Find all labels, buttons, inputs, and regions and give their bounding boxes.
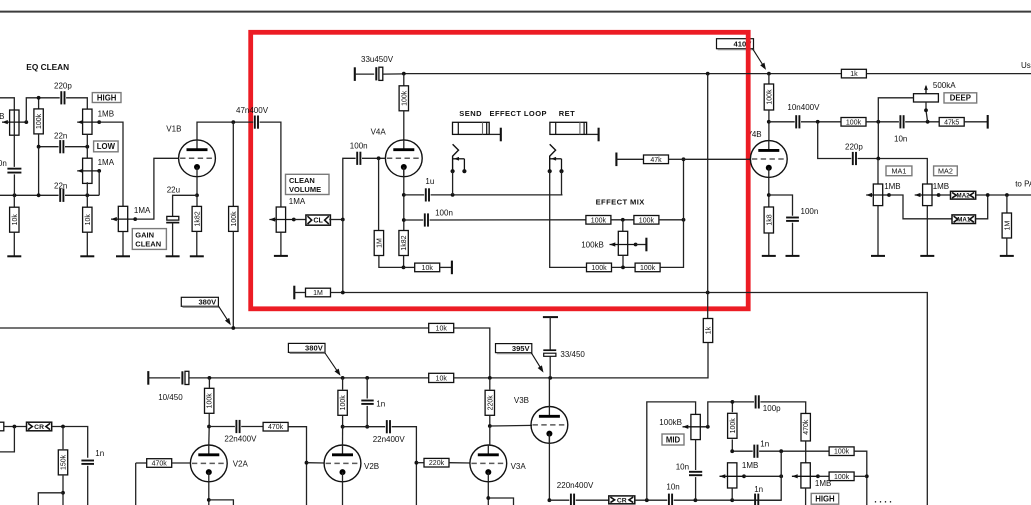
resistor 1k82 V1B cathode [196, 195, 198, 206]
svg-text:1MB: 1MB [742, 461, 758, 470]
svg-text:1n: 1n [760, 440, 769, 449]
svg-text:1M: 1M [1004, 220, 1011, 230]
svg-text:100k: 100k [834, 474, 850, 481]
wire mix top middle [611, 219, 634, 221]
potentiometer LOW 1MA [83, 158, 92, 183]
resistor 10k EQ mid [86, 195, 88, 208]
svg-text:MA2: MA2 [957, 192, 971, 199]
switch SEND jack contacts [453, 144, 459, 171]
wire V2A grid feed riser down [135, 463, 137, 505]
wire output row to PA [976, 194, 1031, 196]
resistor 100k V4B anode load [768, 74, 770, 84]
resistor 47k return terminal [615, 153, 617, 167]
capacitor 10n presence [899, 115, 901, 128]
ground under 100n [792, 223, 794, 256]
capacitor 22n400V V2A [235, 420, 237, 433]
capacitor 1n lower tone [754, 494, 756, 505]
svg-text:380V: 380V [305, 344, 324, 353]
node 410V label (partially behind red box) [717, 39, 754, 49]
svg-text:10k: 10k [85, 214, 92, 226]
resistor 470k tone [801, 413, 810, 441]
svg-text:100k: 100k [834, 449, 850, 456]
svg-text:HIGH: HIGH [97, 93, 117, 102]
svg-text:10k: 10k [436, 375, 448, 382]
ground under gain pot [122, 232, 124, 257]
wire V2B anode row [343, 426, 386, 428]
svg-text:1MA: 1MA [134, 206, 151, 215]
svg-text:22n: 22n [54, 131, 67, 140]
svg-text:CLEAN: CLEAN [135, 239, 161, 248]
svg-text:22n400V: 22n400V [373, 435, 406, 444]
resistor 100k mix top-left [586, 216, 611, 225]
tube V4A [385, 140, 422, 177]
wire HIGH wiper to gain-pot riser [99, 122, 123, 206]
wire V2A grid from 470k [136, 462, 147, 464]
svg-text:100n: 100n [801, 207, 819, 216]
svg-text:220p: 220p [845, 143, 863, 152]
wire high pot bottom down [805, 488, 807, 505]
svg-text:1k82: 1k82 [401, 235, 408, 250]
wire 100p to 470k riser [760, 402, 805, 414]
resistor 100k tone upper [829, 447, 854, 456]
resistor 1k below red box [707, 293, 709, 319]
wire V2A cathode elbow [208, 482, 210, 505]
capacitor 33/450 with top terminal [543, 316, 558, 318]
svg-text:100k: 100k [36, 113, 43, 129]
wire mix bottom right riser [660, 159, 683, 267]
svg-text:100k: 100k [640, 265, 656, 272]
svg-text:MA1: MA1 [892, 166, 907, 175]
tube V3A [470, 445, 507, 482]
potentiometer 1MB bass [728, 463, 737, 488]
svg-text:220k: 220k [429, 460, 445, 467]
wire LOW pot bottom [86, 182, 88, 195]
svg-text:100p: 100p [763, 404, 781, 413]
arrow 395V to rail node [531, 353, 542, 370]
svg-text:33u450V: 33u450V [361, 55, 394, 64]
resistor 100k V4A anode load [403, 74, 405, 86]
resistor 100k mix bottom-right [635, 263, 660, 272]
svg-text:100k: 100k [730, 418, 737, 434]
svg-text:CR: CR [617, 497, 627, 504]
svg-text:V4A: V4A [371, 127, 387, 136]
resistor 100k tone stack [731, 402, 733, 412]
svg-text:V1B: V1B [166, 125, 181, 134]
capacitor 100p [732, 401, 754, 403]
wire slope pot wiper riser to EQ top rail [26, 98, 59, 122]
wire bass wiper row to riser [744, 475, 781, 477]
wire HIGH pot bottom to LOW pot top [86, 134, 88, 158]
wire pot body vertical through [13, 110, 15, 135]
ground under clean volume pot [280, 232, 282, 256]
resistor 10k rail upper [429, 323, 454, 332]
capacitor 1n upper tone [753, 445, 755, 458]
svg-text:100k: 100k [591, 217, 607, 224]
svg-text:220p: 220p [54, 82, 72, 91]
resistor 220k V3A anode load [489, 378, 491, 390]
resistor 100k V1B anode load [232, 122, 234, 206]
svg-text:1k: 1k [706, 326, 713, 334]
svg-text:100k: 100k [846, 119, 862, 126]
capacitor 10/450 electrolytic [181, 371, 183, 384]
svg-text:1MB: 1MB [933, 182, 949, 191]
wire 1k down to second rail corner [550, 343, 708, 378]
red highlight box around effects loop section [251, 32, 749, 309]
capacitor 10n400V [795, 115, 797, 128]
label 380V left [181, 297, 218, 306]
ground under 10k left [13, 232, 15, 256]
resistor 100k EQ [38, 98, 40, 110]
svg-text:V2B: V2B [364, 462, 379, 471]
potentiometer left (edge, partially cut) [10, 110, 19, 135]
svg-text:MA2: MA2 [938, 166, 953, 175]
label HIGH bottom [811, 493, 839, 504]
wire RET left contact down to mix bottom row [550, 171, 587, 267]
wire V3B cathode down [548, 434, 550, 501]
wire left edge node [4, 426, 27, 428]
svg-text:220n400V: 220n400V [557, 481, 594, 490]
wire 1k82 bottom to 10k row [403, 256, 405, 268]
tube V1B [179, 140, 216, 177]
svg-text:47k: 47k [650, 157, 662, 164]
wire 22n row2 left from edge [0, 194, 59, 196]
wire V3B anode to rail [548, 378, 550, 407]
capacitor 22n400V V2B [386, 420, 388, 433]
svg-text:1MB: 1MB [884, 182, 900, 191]
svg-text:1n: 1n [95, 449, 104, 458]
label 395V [496, 344, 532, 353]
svg-text:1MA: 1MA [289, 197, 306, 206]
top border line [0, 11, 1031, 13]
connector MA2 [951, 191, 976, 199]
svg-text:220k: 220k [487, 395, 494, 411]
wire V3A anode to V3B grid [488, 424, 492, 428]
wire 1n row upper [732, 450, 753, 452]
svg-text:CLEAN: CLEAN [289, 176, 315, 185]
svg-text:1k8: 1k8 [766, 214, 773, 225]
wire RET right contact down to 1u wire [561, 171, 563, 195]
wire riser 100k bottom to 22n row2 [38, 147, 40, 196]
capacitor 100n left edge (clipped) [13, 135, 15, 167]
wire MA1 wiper to MA1 connector [889, 195, 952, 219]
wire V4B cathode [768, 177, 770, 207]
resistor 1M output load [1006, 195, 1008, 213]
svg-text:22u: 22u [167, 185, 180, 194]
ground under 1k82 [196, 232, 198, 257]
arrow 410V pointing to supply node [753, 49, 765, 68]
svg-text:395V: 395V [512, 344, 531, 353]
svg-text:LOW: LOW [97, 142, 116, 151]
svg-text:500kA: 500kA [933, 81, 956, 90]
potentiometer MA2 1MB [923, 184, 932, 206]
wire 100k to right riser [854, 451, 867, 505]
capacitor 10n lower [668, 494, 670, 505]
switch RET jack contacts [550, 144, 556, 171]
potentiometer 1MB HIGH [801, 463, 810, 488]
svg-text:V2A: V2A [233, 459, 249, 468]
ground under 10k mid [86, 232, 88, 256]
wire MA2 wiper to MA2 connector [939, 194, 951, 196]
svg-text:SEND: SEND [459, 109, 482, 118]
wire left node down-left elbow [0, 427, 14, 452]
arrow 380V to rail node [218, 306, 229, 322]
connector CR upper [27, 422, 52, 431]
wire CR node riser to mid pot line [647, 402, 696, 500]
wire 47n to clean volume pot riser [260, 122, 281, 207]
wire DEEP pot left lead [878, 98, 913, 159]
wire CL to grid riser [329, 219, 343, 221]
wire V2A anode row [208, 427, 210, 446]
ground under 1k8 [768, 233, 770, 256]
capacitor 100n effect mix lower [404, 219, 423, 221]
label DEEP [944, 93, 977, 103]
wire left edge resistor (clipped) [0, 422, 4, 431]
ground under MA1 pot [877, 206, 879, 256]
svg-text:1MA: 1MA [98, 158, 115, 167]
wire send switch to 1u node [452, 171, 454, 195]
resistor 100k high wiper [818, 475, 829, 477]
svg-text:10/450: 10/450 [158, 393, 183, 402]
ground under 1M [1006, 238, 1008, 256]
svg-text:100k: 100k [401, 90, 408, 106]
svg-text:1MB: 1MB [98, 109, 114, 118]
resistor 47k5 [939, 118, 964, 127]
capacitor 1n V2B [366, 378, 368, 399]
wire gain wiper to V1B grid [135, 158, 179, 219]
wire DEEP pot bottom to 47k5 row [926, 102, 928, 122]
svg-text:EQ CLEAN: EQ CLEAN [26, 62, 69, 72]
label GAIN CLEAN [132, 229, 166, 250]
capacitor 1n left [81, 460, 94, 462]
svg-text:V3B: V3B [514, 396, 529, 405]
label MA1 [886, 166, 912, 176]
svg-text:MID: MID [666, 435, 681, 444]
resistor 150k [62, 427, 64, 450]
svg-text:. . . .: . . . . [874, 495, 892, 505]
wire vertical top node through red box to 1k [707, 74, 709, 293]
capacitor 1u send [404, 194, 424, 196]
wire mix pot bottom to bottom row [622, 255, 624, 267]
capacitor 22u electrolytic [173, 195, 197, 216]
wire 470k down to HIGH pot (crossing 1n row) [805, 441, 807, 463]
connector MA1 [952, 215, 976, 224]
svg-text:100kB: 100kB [659, 418, 682, 427]
wire V4B anode row [769, 121, 795, 123]
resistor 220k V3A grid [416, 462, 424, 464]
wire MA1 pot riser [877, 159, 879, 185]
svg-text:1u: 1u [425, 177, 434, 186]
svg-text:10n: 10n [894, 134, 907, 143]
wire 33u to anode node V4A [383, 73, 404, 75]
label HIGH [92, 93, 121, 103]
resistor 1k8 V4B cathode [764, 207, 773, 233]
wire rail upper corner down to rail2 [454, 328, 490, 378]
svg-text:10k: 10k [436, 326, 448, 333]
svg-text:CL: CL [313, 216, 323, 225]
wire mix pot wiper to terminal [636, 244, 647, 246]
wire riser CL node down to 1M mix wire [342, 220, 344, 293]
svg-text:10n: 10n [666, 483, 679, 492]
svg-text:HIGH: HIGH [815, 495, 835, 504]
connector CL [294, 219, 307, 221]
potentiometer CLEAN VOLUME 1MA [276, 207, 285, 232]
svg-text:1n: 1n [754, 485, 763, 494]
capacitor 220n400V [549, 499, 569, 501]
svg-text:100k: 100k [207, 393, 214, 409]
capacitor 22n upper [59, 140, 61, 153]
wire V4A cathode chain [403, 168, 405, 231]
label MA2 [934, 166, 958, 176]
potentiometer HIGH 1MB [83, 109, 92, 134]
capacitor 33u450V electrolytic [375, 67, 377, 80]
svg-text:100n: 100n [0, 159, 7, 168]
wire from left edge into slope pot top [0, 98, 14, 110]
arrow 380V mid to rail node [325, 353, 339, 373]
svg-text:1MB: 1MB [0, 112, 4, 121]
resistor 100k V2B anode load [342, 378, 344, 390]
wire V3A cathode elbow [487, 482, 489, 505]
resistor 10k cathode to terminal [404, 266, 416, 268]
svg-text:1n: 1n [376, 399, 385, 408]
svg-text:47n400V: 47n400V [236, 106, 269, 115]
wire V2B grid [307, 462, 325, 464]
svg-text:100k: 100k [766, 89, 773, 105]
ground under 22u [172, 223, 174, 257]
wire 150k bottom elbow left-down [38, 493, 63, 505]
svg-text:10k: 10k [12, 214, 19, 226]
svg-text:100kB: 100kB [581, 241, 604, 250]
svg-text:1k: 1k [850, 71, 858, 78]
svg-text:MA1: MA1 [957, 216, 971, 223]
svg-text:100k: 100k [340, 395, 347, 411]
svg-text:100k: 100k [591, 265, 607, 272]
svg-text:10n: 10n [676, 462, 689, 471]
wire 100k down to 380V rail [232, 231, 234, 328]
wire LOW wiper riser down [98, 171, 100, 195]
resistor 1k top right [841, 69, 866, 78]
tube V3B [531, 407, 568, 444]
tube V2A [190, 445, 227, 482]
svg-text:RET: RET [559, 109, 576, 118]
wire 1M bottom to cathode row [379, 256, 404, 268]
svg-text:100n: 100n [435, 209, 453, 218]
svg-text:10n400V: 10n400V [787, 103, 820, 112]
capacitor 220p [60, 91, 62, 104]
resistor 1k82 V4A cathode [399, 231, 408, 256]
resistor 100k V2A anode load [208, 378, 210, 388]
svg-text:1M: 1M [376, 238, 383, 248]
svg-text:Used: Used [1021, 61, 1031, 70]
resistor 470k V2A grid [147, 459, 172, 468]
svg-text:100k: 100k [639, 217, 655, 224]
capacitor 100n V4A grid [356, 152, 358, 165]
svg-text:100k: 100k [231, 211, 238, 227]
svg-text:380V: 380V [198, 298, 217, 307]
capacitor 33u450V input terminal [354, 67, 356, 81]
wire 220p to HIGH pot top [66, 98, 87, 109]
capacitor 22n lower [59, 189, 61, 202]
svg-text:22n400V: 22n400V [224, 435, 257, 444]
connector CR lower [609, 496, 635, 504]
label CLEAN VOLUME [286, 174, 330, 194]
wire V2B cathode down [342, 482, 344, 505]
svg-text:470k: 470k [803, 419, 810, 435]
svg-text:10k: 10k [422, 265, 434, 272]
tube V2B [324, 445, 361, 482]
svg-text:33/450: 33/450 [560, 350, 585, 359]
wire V2B anode node [341, 425, 345, 429]
potentiometer 100kB MID [691, 414, 700, 439]
svg-text:22n: 22n [54, 181, 67, 190]
resistor 1M mix return [306, 288, 331, 297]
resistor 1M grid leak [378, 158, 380, 230]
wire CR to 150k node [52, 427, 88, 458]
wire MID wiper riser to 100k node [708, 402, 733, 427]
wire 1M mix return row [293, 286, 295, 300]
wire V1B anode to top node [197, 122, 253, 140]
resistor 100k treble row [841, 118, 866, 127]
label 380V mid [288, 343, 325, 352]
potentiometer GAIN CLEAN 1MA [118, 206, 127, 231]
potentiometer 100kB effect mix [622, 220, 624, 232]
svg-text:CR: CR [34, 424, 44, 431]
potentiometer MA1 1MB [873, 184, 882, 206]
wire top supply row to right edge [404, 73, 1031, 75]
resistor 10k EQ left [13, 195, 15, 208]
svg-text:GAIN: GAIN [135, 230, 154, 239]
svg-text:470k: 470k [152, 461, 168, 468]
wire V1B cathode [196, 177, 198, 196]
svg-text:1M: 1M [313, 290, 323, 297]
wire bass pot bottom to bottom row [731, 488, 733, 500]
wire MA1 connector to output riser [976, 195, 988, 219]
capacitor 10n under MID pot [695, 440, 697, 470]
svg-text:V3A: V3A [511, 462, 527, 471]
svg-text:1k82: 1k82 [194, 211, 201, 226]
wire riser 1n node down to bottom 1n [760, 451, 781, 500]
wire 47k node to V4B grid [684, 158, 751, 160]
label LOW [94, 141, 119, 152]
svg-text:150k: 150k [61, 454, 68, 470]
resistor 100k mix top-right [634, 216, 659, 225]
svg-text:47k5: 47k5 [944, 119, 959, 126]
svg-text:to PA: to PA [1015, 179, 1031, 188]
capacitor 100n V4B cathode bypass [769, 195, 793, 216]
svg-text:100n: 100n [350, 141, 368, 150]
wire 395V rail lower [147, 371, 149, 385]
svg-text:470k: 470k [268, 424, 284, 431]
capacitor 47n400V [254, 116, 256, 129]
wire 22n row1 [39, 146, 59, 148]
resistor 470k coupling [263, 422, 288, 431]
capacitor 220p V4B [818, 122, 852, 159]
ground under MA2 pot [926, 206, 928, 256]
wire 470k to V2B grid riser [288, 427, 306, 505]
wire clean volume net riser [343, 158, 356, 219]
resistor 10k rail lower [429, 373, 454, 382]
tube V4B [750, 141, 787, 178]
wire 380V rail upper [0, 327, 429, 329]
label MID [662, 434, 684, 445]
svg-text:DEEP: DEEP [950, 94, 971, 103]
svg-text:EFFECT LOOP: EFFECT LOOP [490, 109, 547, 118]
svg-text:EFFECT MIX: EFFECT MIX [596, 197, 645, 206]
resistor 100k mix bottom-left [587, 263, 612, 272]
svg-text:VOLUME: VOLUME [289, 185, 321, 194]
